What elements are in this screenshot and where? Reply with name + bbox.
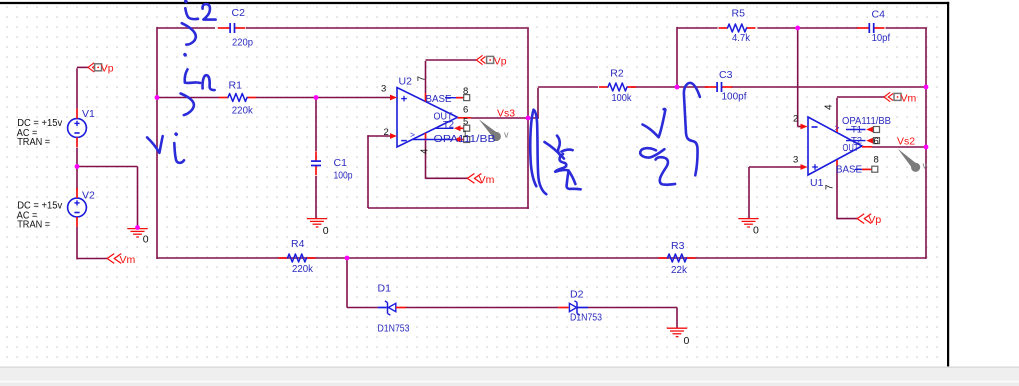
svg-text:4: 4 (823, 104, 834, 110)
svg-text:100pf: 100pf (722, 91, 747, 103)
svg-text:220k: 220k (232, 105, 254, 117)
svg-text:0: 0 (684, 335, 690, 347)
svg-text:8: 8 (874, 155, 879, 166)
svg-text:10pf: 10pf (872, 32, 891, 44)
svg-text:C1: C1 (334, 157, 348, 169)
svg-text:0: 0 (753, 224, 759, 236)
svg-text:U2: U2 (399, 76, 413, 88)
svg-text:T2: T2 (443, 120, 454, 131)
svg-text:7: 7 (824, 184, 835, 190)
svg-text:>: > (835, 123, 840, 133)
svg-text:Vs3: Vs3 (497, 108, 515, 120)
svg-text:R3: R3 (671, 240, 685, 252)
svg-text:0: 0 (323, 225, 329, 237)
svg-text:R2: R2 (610, 68, 624, 80)
svg-text:OPA111/BB: OPA111/BB (842, 115, 891, 127)
svg-text:5: 5 (463, 117, 468, 128)
svg-text:0: 0 (143, 234, 149, 246)
svg-text:D1N753: D1N753 (378, 323, 410, 335)
svg-text:C3: C3 (719, 69, 733, 81)
svg-text:100k: 100k (612, 92, 633, 104)
svg-text:v: v (504, 130, 509, 140)
svg-text:Vs2: Vs2 (897, 136, 915, 148)
svg-text:R1: R1 (229, 80, 243, 92)
svg-text:D1: D1 (378, 283, 392, 295)
svg-text:8: 8 (463, 86, 468, 97)
svg-text:Vm: Vm (901, 92, 917, 104)
svg-text:>: > (410, 129, 415, 139)
svg-text:U1: U1 (810, 177, 824, 189)
svg-text:TRAN =: TRAN = (17, 137, 50, 148)
svg-text:Vm: Vm (120, 254, 136, 266)
svg-text:220p: 220p (232, 37, 253, 49)
svg-text:Vp: Vp (868, 214, 881, 226)
svg-text:Vp: Vp (494, 55, 507, 67)
svg-text:v: v (923, 161, 928, 171)
svg-text:BASE: BASE (426, 93, 452, 105)
svg-text:220k: 220k (292, 263, 314, 275)
svg-text:2: 2 (793, 114, 798, 125)
svg-text:3: 3 (381, 84, 386, 95)
svg-text:Vm: Vm (479, 174, 495, 186)
svg-text:D2: D2 (570, 289, 584, 301)
svg-text:V1: V1 (82, 108, 95, 120)
svg-text:2: 2 (384, 127, 389, 138)
svg-text:6: 6 (463, 105, 468, 116)
svg-text:R4: R4 (291, 238, 305, 250)
svg-text:6: 6 (874, 136, 879, 147)
svg-text:C2: C2 (232, 7, 246, 19)
svg-text:22k: 22k (671, 264, 688, 276)
svg-text:3: 3 (793, 155, 798, 166)
svg-text:1: 1 (463, 128, 468, 138)
svg-text:7: 7 (417, 76, 428, 82)
svg-text:V2: V2 (82, 190, 95, 202)
svg-text:D1N753: D1N753 (570, 312, 602, 324)
svg-text:OUT: OUT (843, 142, 859, 154)
svg-text:BASE: BASE (836, 164, 862, 176)
svg-text:4: 4 (419, 148, 430, 154)
svg-text:T1: T1 (851, 124, 862, 135)
svg-text:R5: R5 (732, 8, 746, 20)
svg-text:Vp: Vp (101, 63, 114, 75)
svg-text:TRAN =: TRAN = (17, 220, 50, 231)
svg-text:100p: 100p (334, 170, 353, 182)
svg-text:4.7k: 4.7k (732, 32, 751, 44)
svg-text:C4: C4 (872, 9, 886, 21)
